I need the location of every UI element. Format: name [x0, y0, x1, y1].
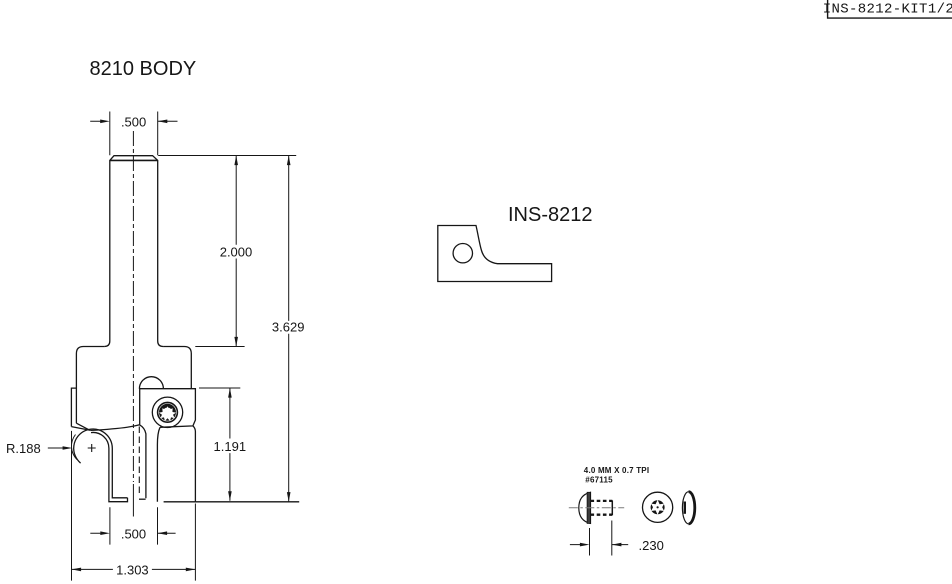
dim .500 top arrow lines — [90, 120, 177, 122]
insert tip bottom — [139, 498, 146, 500]
screw front view torx ring — [651, 500, 665, 514]
hidden insert edge — [138, 427, 140, 497]
screw side view lens thin — [682, 492, 688, 524]
relief diagonal outer — [71, 427, 90, 431]
insert part hole — [453, 244, 472, 263]
dim .230 extension lines — [590, 521, 612, 556]
relief diagonal inner — [76, 423, 89, 430]
dim 1.303 extension lines — [72, 431, 196, 581]
dim 2.000 line — [235, 156, 237, 347]
dim .500 bottom extension lines — [110, 507, 158, 544]
screw side view lens thick — [689, 492, 695, 524]
screw front view center dot — [657, 506, 659, 508]
screw side view recess — [684, 502, 686, 514]
screw mounted outer circle — [152, 397, 182, 427]
R.188 leader line — [48, 447, 64, 449]
screw thread bottom — [591, 514, 613, 516]
svg-text:INS-8212-KIT1/2: INS-8212-KIT1/2 — [823, 2, 952, 18]
screw thread top — [591, 500, 613, 502]
screw front view torx star — [651, 500, 664, 515]
insert part outline — [438, 226, 552, 282]
gullet curve — [91, 425, 146, 498]
insert corner fillet right — [193, 426, 196, 502]
svg-text:1.191: 1.191 — [214, 439, 247, 454]
svg-text:2.000: 2.000 — [220, 244, 253, 259]
screw front view outer — [643, 492, 673, 522]
bottom edge right — [164, 501, 300, 503]
screw head back face — [587, 492, 590, 523]
R.188 leader arrowhead — [63, 446, 73, 450]
screw mounted torx star — [159, 406, 176, 421]
svg-text:.500: .500 — [121, 526, 146, 541]
dim 1.191 line — [229, 388, 231, 501]
screw mounted ring — [158, 402, 178, 422]
dim .500 top extension lines — [110, 112, 158, 156]
dim 1.303 line — [72, 568, 196, 570]
screw head dome — [579, 492, 591, 523]
title block border — [828, 0, 952, 18]
dim 1.191 extension top — [199, 387, 240, 389]
right wing gullet fillet — [157, 427, 160, 502]
left profile step — [71, 388, 76, 427]
centerline body axis — [132, 131, 134, 482]
cutting edge dome inner — [91, 432, 128, 501]
svg-text:4.0 MM X 0.7 TPI: 4.0 MM X 0.7 TPI — [584, 466, 649, 475]
dim 3.629 line — [288, 156, 290, 502]
dim .500 bottom arrow lines — [90, 532, 175, 534]
shank outline — [110, 156, 158, 341]
svg-text:INS-8212: INS-8212 — [508, 204, 593, 226]
body flange top — [76, 347, 104, 424]
svg-text:R.188: R.188 — [6, 441, 41, 456]
screw mounted torx socket — [161, 406, 173, 418]
svg-text:#67115: #67115 — [585, 476, 613, 485]
dim 2.000 extension bottom — [195, 346, 244, 348]
svg-text:8210 BODY: 8210 BODY — [90, 58, 197, 80]
screw end face — [611, 500, 613, 515]
svg-text:1.303: 1.303 — [116, 562, 149, 577]
R.188 dimension arc — [71, 435, 76, 460]
R.188 center mark — [88, 444, 96, 452]
cutting edge dome outer — [74, 429, 128, 498]
insert mounted outline — [140, 389, 196, 428]
shank-body fillet right — [158, 341, 163, 347]
svg-text:.500: .500 — [121, 115, 146, 130]
shank-body fillet left — [104, 341, 110, 347]
svg-text:.230: .230 — [639, 538, 664, 553]
dim 2.000 extension top — [158, 155, 296, 157]
svg-text:3.629: 3.629 — [272, 320, 305, 335]
dim .230 arrow lines — [570, 544, 628, 546]
pocket relief arc — [139, 377, 163, 389]
screw centerline — [569, 507, 624, 509]
shank chamfer line — [110, 159, 158, 161]
